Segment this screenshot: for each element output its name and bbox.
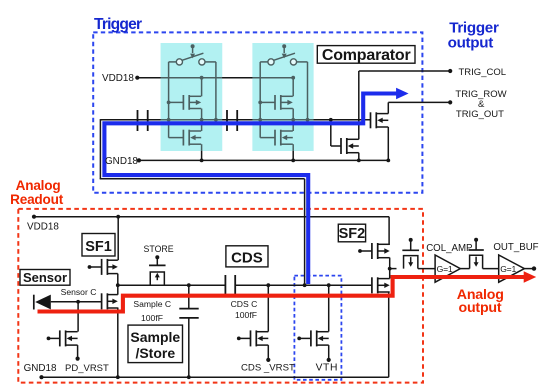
node input-wire junction (1) <box>167 118 171 122</box>
wire SF2b bottom to GND rail <box>388 292 390 377</box>
svg-text:CDS: CDS <box>231 250 263 267</box>
node GND tap (1) <box>200 159 204 163</box>
svg-text:100fF: 100fF <box>141 313 163 323</box>
node SF2 output junction <box>388 267 392 271</box>
node feedback-output junction (2) <box>306 118 310 122</box>
wire nmos drain to output (2) <box>292 120 294 131</box>
wire TRIG_COL drain riser <box>358 71 360 139</box>
node GND18 terminal (trigger) <box>137 158 141 162</box>
node VTH junction <box>327 283 331 287</box>
node VDD18 terminal (trigger) <box>135 76 139 80</box>
node VDD18 terminal (analog) <box>32 215 36 219</box>
node TRIG_COL terminal <box>448 69 452 73</box>
svg-text:OUT_BUF: OUT_BUF <box>493 242 538 253</box>
svg-text:PD_VRST: PD_VRST <box>65 363 109 374</box>
sf2 label box <box>338 224 365 242</box>
nmos M_PD (PD_VRST reset) <box>60 330 78 346</box>
node output junction (2) <box>291 118 295 122</box>
analog output arrow (red) <box>524 271 537 282</box>
wire nmos source to GND (2) <box>292 144 294 160</box>
switch S_COL (column select) <box>402 238 419 269</box>
node analog output terminal <box>532 266 536 270</box>
trigger block dashed box <box>93 32 422 192</box>
wire pmos gate join (1) <box>169 101 184 103</box>
nmos Q2 (TRIG_ROW driver) <box>371 112 389 128</box>
sf1 label box <box>82 234 115 257</box>
VTH dashed box <box>294 276 341 380</box>
wire OUT_BUF to terminal <box>524 268 532 270</box>
pd_vrst gate stub <box>47 337 51 341</box>
cds_vrst gate stub <box>237 337 241 341</box>
node Q2 GND junction <box>386 159 390 163</box>
wire switch left to input vertical (1) <box>169 61 177 63</box>
nmos M_CV (CDS_VRST reset) <box>251 330 269 346</box>
wire VDD18 rail (analog) <box>34 216 389 218</box>
wire SF2a drain to node <box>389 258 391 269</box>
nmos Q1 (TRIG_COL driver) <box>341 138 359 154</box>
node pmos gate junction (1) <box>167 101 171 105</box>
wire pmos source to VDD (1) <box>201 78 203 97</box>
pmos M1a (inverter top) <box>183 95 201 110</box>
svg-text:VTH: VTH <box>316 362 338 373</box>
svg-text:TRIG_OUT: TRIG_OUT <box>456 109 504 120</box>
wire switch left to input vertical (2) <box>260 61 268 63</box>
wire comparator input horizontal (under blue) <box>100 119 370 121</box>
node TRIG_ROW terminal <box>448 100 452 104</box>
node sample cap GND junction <box>187 375 191 379</box>
wire VTH drain <box>328 285 330 331</box>
wire pmos drain to output (2) <box>292 109 294 120</box>
svg-text:Sample C: Sample C <box>133 299 171 309</box>
svg-text:G=1: G=1 <box>500 264 516 274</box>
svg-text:output: output <box>448 35 494 52</box>
op-amp COL_AMP (G=1) <box>435 255 460 282</box>
photodiode D1 <box>33 295 35 310</box>
comparator label box <box>317 46 415 64</box>
svg-text:TRIG_COL: TRIG_COL <box>459 67 507 78</box>
svg-text:Sensor C: Sensor C <box>61 287 97 297</box>
wire to lower nmos gate <box>330 120 332 146</box>
capacitor C_samp (Sample C) <box>179 308 198 310</box>
wire pmos source to VDD (2) <box>292 78 294 97</box>
wire Q2 drain riser <box>387 102 389 113</box>
wire sample cap bottom lead <box>188 318 190 377</box>
wire nmos gate join (2) <box>260 137 275 139</box>
cyan cell 1 background <box>161 43 223 151</box>
svg-text:VDD18: VDD18 <box>27 221 59 232</box>
node VDD tap (2) <box>291 76 295 80</box>
pmos SF2a (source follower 2 top) <box>372 243 390 259</box>
nmos M1b (inverter bottom) <box>183 130 201 146</box>
wire pmos drain to output (1) <box>201 109 203 120</box>
wire GND18 rail (trigger) <box>139 159 390 161</box>
svg-text:GND18: GND18 <box>105 156 138 167</box>
svg-text:Trigger: Trigger <box>94 16 142 33</box>
svg-text:/Store: /Store <box>135 345 175 361</box>
node VTH terminal <box>327 358 331 362</box>
wire VTH source lead <box>328 345 330 358</box>
node SF1 output junction <box>116 283 120 287</box>
wire GND18 rail (analog) <box>42 376 389 378</box>
wire nmos gate join (1) <box>169 137 184 139</box>
cyan tint cell 1 <box>161 43 223 151</box>
trigger output arrow (blue) <box>396 88 409 99</box>
node sample-cap junction <box>187 283 191 287</box>
wire Q2 source to GND <box>387 127 389 160</box>
sensor box <box>20 270 70 286</box>
node pmos gate junction (2) <box>258 101 262 105</box>
wire analog bus left segment <box>118 284 226 286</box>
vth gate stub <box>297 337 301 341</box>
wire analog bus right segment <box>235 284 372 286</box>
svg-text:SF1: SF1 <box>85 239 112 255</box>
cyan cell 2 background <box>252 43 313 151</box>
wire VDD18 rail (trigger) <box>137 77 292 79</box>
pmos M2a (inverter top) <box>275 95 293 110</box>
nmos SF2b (source follower 2 bottom) <box>372 277 390 293</box>
wire feedback vertical (1) <box>215 62 217 120</box>
svg-text:Comparator: Comparator <box>322 47 411 64</box>
node CDS_VRST junction <box>266 283 270 287</box>
wire pmos gate join (2) <box>260 101 275 103</box>
wire switch right to feedback vertical (2) <box>297 61 308 63</box>
node PD_VRST terminal <box>76 357 80 361</box>
wire SF1 drain from VDD <box>117 217 119 261</box>
switch S1 (autozero) <box>176 59 182 65</box>
svg-text:output: output <box>459 300 502 316</box>
wire VDD rail corner down to SF2 <box>388 217 390 245</box>
wire input vertical (1) <box>168 62 170 138</box>
node Q1 GND junction <box>357 159 361 163</box>
svg-text:CDS C: CDS C <box>231 299 258 309</box>
svg-text:CDS _VRST: CDS _VRST <box>241 362 295 373</box>
node comparator out junction <box>329 118 333 122</box>
svg-text:SF2: SF2 <box>339 226 366 242</box>
switch control stub (1) <box>191 44 195 48</box>
node output junction (1) <box>200 118 204 122</box>
sf2 gate stub <box>358 249 362 253</box>
capacitor C_cds (CDS C series) <box>224 275 226 296</box>
capacitor C2 (cell 2 input) <box>226 110 228 131</box>
wire COL switch to COL_AMP <box>418 268 435 270</box>
wire photodiode to gate <box>51 301 102 303</box>
node input-wire junction (2) <box>258 118 262 122</box>
wire sample cap top lead <box>188 285 190 308</box>
wire TRIG_ROW output <box>388 101 450 103</box>
svg-text:Analog: Analog <box>16 178 61 193</box>
svg-text:Readout: Readout <box>10 192 64 207</box>
pmos SF1 (source follower 1) <box>102 259 118 275</box>
node VDD tap (1) <box>200 76 204 80</box>
wire switch right to feedback vertical (1) <box>205 61 216 63</box>
cyan tint cell 2 <box>252 43 313 151</box>
wire CDS_VRST source lead <box>267 345 269 358</box>
node comparator tap junction <box>303 283 307 287</box>
svg-text:VDD18: VDD18 <box>102 73 134 84</box>
wire comparator input riser to CDS node <box>304 179 306 285</box>
op-amp OUT_BUF (G=1) <box>499 255 525 282</box>
svg-text:COL_AMP: COL_AMP <box>426 243 472 254</box>
wire Q1 source to GND <box>358 153 360 161</box>
switch control stub (2) <box>282 44 286 48</box>
wire COL_AMP to OUT switch <box>460 268 469 270</box>
wire PD_VRST source to terminal <box>77 345 79 357</box>
nmos M2b (inverter bottom) <box>275 130 293 146</box>
wire comparator input bottom horizontal <box>100 178 305 180</box>
svg-text:G=1: G=1 <box>437 264 453 274</box>
svg-text:100fF: 100fF <box>235 310 257 320</box>
node SF1 VDD junction <box>116 215 120 219</box>
node sensor node junction <box>76 300 80 304</box>
switch S2 (autozero) <box>268 59 274 65</box>
wire nmos source to GND (1) <box>201 144 203 160</box>
node GND tap (2) <box>291 159 295 163</box>
wire SF2 node to COL switch <box>390 268 397 270</box>
wire sensor node to PD_VRST <box>77 302 79 332</box>
wire TRIG_COL output <box>359 70 450 72</box>
wire SF2b top to node <box>389 269 391 279</box>
node feedback-output junction (1) <box>214 118 218 122</box>
wire input vertical (2) <box>259 62 261 138</box>
wire SF1 to sensor nmos <box>117 274 119 295</box>
analog signal path (red) <box>38 277 528 312</box>
node GND18 terminal (analog) <box>39 375 43 379</box>
svg-text:GND18: GND18 <box>24 363 57 374</box>
node CDS_VRST terminal <box>266 358 270 362</box>
svg-text:STORE: STORE <box>144 244 174 254</box>
sample/store label box <box>128 325 183 363</box>
switch S_OUT (output select) <box>468 238 483 269</box>
svg-text:Sensor: Sensor <box>23 270 67 285</box>
nmos M_SC (sensor input device) <box>102 293 118 309</box>
wire sensor nmos source to GND <box>117 308 119 378</box>
wire nmos drain to output (1) <box>201 120 203 131</box>
sf1 gate stub <box>88 265 92 269</box>
cds label box <box>226 246 268 267</box>
node sensor-chain GND junction <box>116 375 120 379</box>
trigger signal path (blue) <box>104 94 399 285</box>
nmos M_VT (VTH device) <box>311 330 329 346</box>
capacitor C1 (cell 1 input) <box>137 110 139 131</box>
wire comparator input left vertical <box>99 119 101 179</box>
wire CDS_VRST drain <box>267 285 269 331</box>
switch STORE (sample switch) <box>149 255 166 285</box>
svg-text:Sample: Sample <box>130 329 180 345</box>
wire OUT switch to OUT_BUF <box>483 268 499 270</box>
wire feedback vertical (2) <box>307 62 309 120</box>
analog readout dashed box <box>18 209 423 383</box>
